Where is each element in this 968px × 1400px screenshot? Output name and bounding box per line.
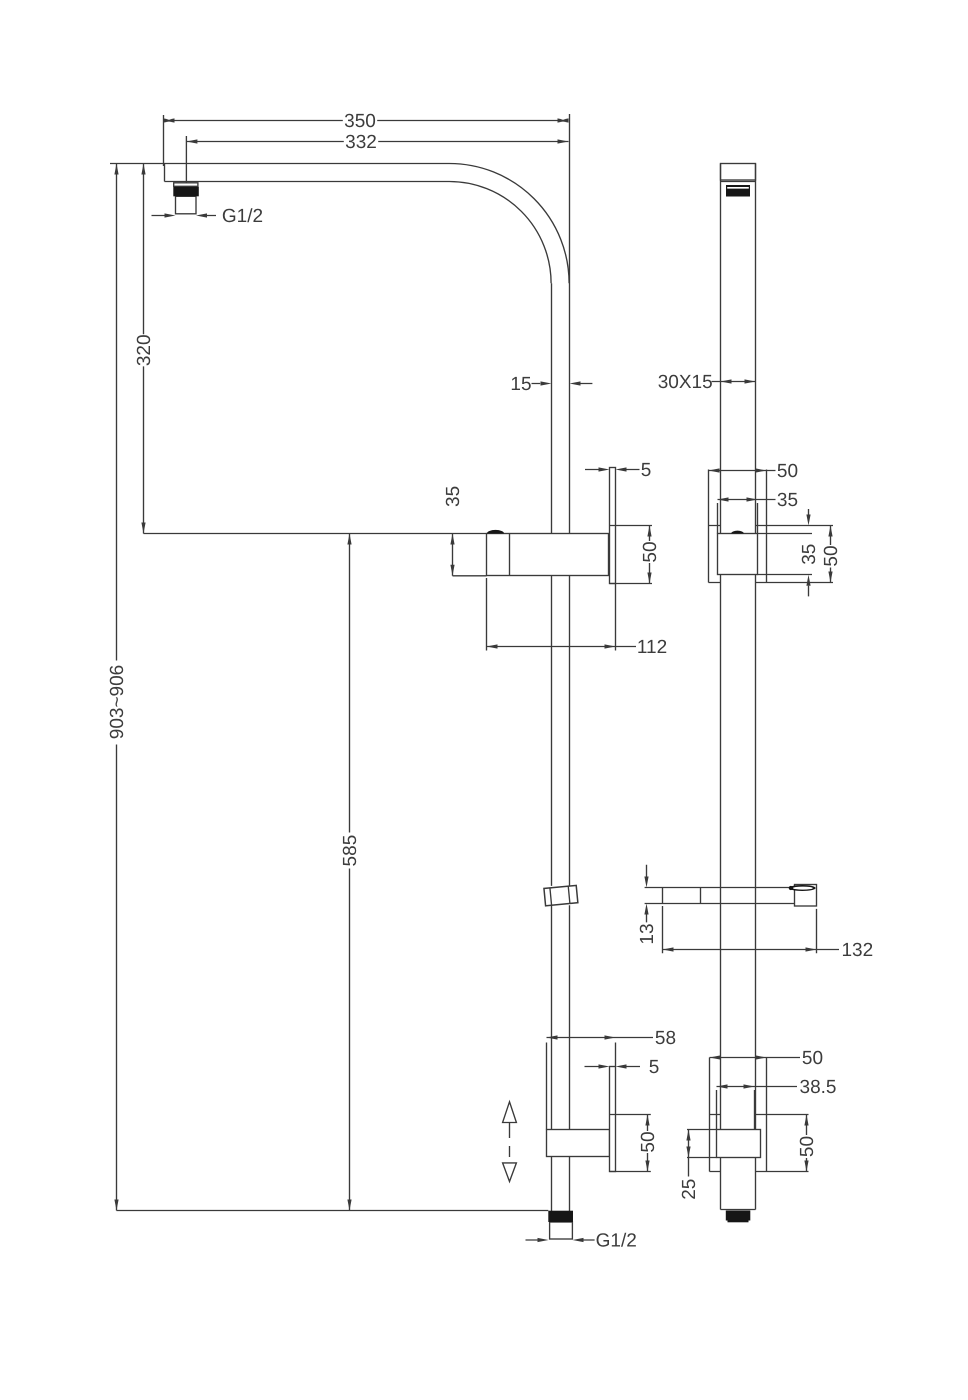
svg-text:30X15: 30X15 — [658, 372, 713, 393]
svg-text:G1/2: G1/2 — [222, 206, 263, 227]
svg-text:5: 5 — [649, 1057, 660, 1078]
svg-text:35: 35 — [777, 490, 798, 511]
svg-text:320: 320 — [134, 334, 155, 366]
svg-text:50: 50 — [821, 545, 842, 566]
svg-text:903~906: 903~906 — [107, 665, 128, 740]
svg-text:25: 25 — [679, 1179, 700, 1200]
svg-text:585: 585 — [340, 835, 361, 867]
svg-text:132: 132 — [841, 940, 873, 961]
svg-text:35: 35 — [443, 486, 464, 507]
svg-text:350: 350 — [344, 111, 376, 132]
svg-text:G1/2: G1/2 — [596, 1231, 637, 1252]
svg-text:50: 50 — [802, 1048, 823, 1069]
svg-text:35: 35 — [799, 544, 820, 565]
svg-text:15: 15 — [510, 374, 531, 395]
svg-text:332: 332 — [345, 132, 377, 153]
svg-text:50: 50 — [640, 541, 661, 562]
svg-text:112: 112 — [637, 637, 667, 658]
svg-text:38.5: 38.5 — [800, 1077, 837, 1098]
svg-text:50: 50 — [777, 461, 798, 482]
svg-text:13: 13 — [637, 923, 658, 944]
svg-text:50: 50 — [797, 1136, 818, 1157]
svg-text:50: 50 — [638, 1131, 659, 1152]
svg-text:5: 5 — [641, 460, 652, 481]
svg-text:58: 58 — [655, 1028, 676, 1049]
